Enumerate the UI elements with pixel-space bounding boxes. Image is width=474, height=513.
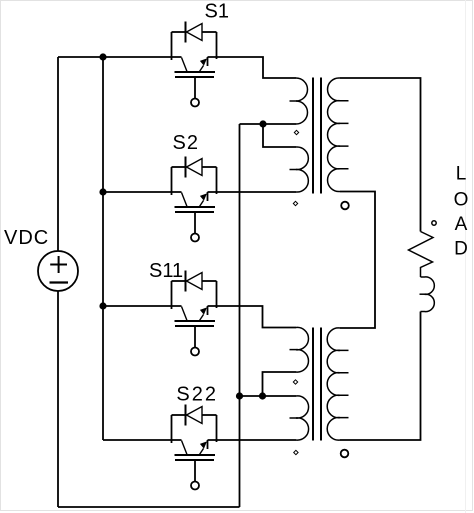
polarity mark T1 primary upper (294, 130, 298, 134)
transformer T2 primary upper winding (296, 327, 308, 372)
node: bus junction at S11 row (99, 302, 106, 309)
wire: S2 output to T1 primary bottom (208, 191, 297, 193)
diode of switch S2 (172, 157, 217, 196)
node: T2 tap junction at winding (259, 392, 266, 399)
wire: bottom return wire (58, 506, 240, 508)
svg-text:D: D (454, 239, 468, 260)
svg-text:A: A (455, 214, 468, 235)
transformer T2 secondary winding (327, 328, 340, 440)
svg-text:S2: S2 (173, 132, 199, 154)
load inductor (421, 277, 435, 312)
transistor of switch S22 (175, 440, 216, 490)
wire: VDC top lead up left side (57, 57, 59, 251)
polarity mark T1 primary lower (293, 201, 297, 205)
svg-text:VDC: VDC (4, 227, 49, 249)
wire: row S2 left (103, 191, 182, 193)
diode of switch S11 (172, 271, 217, 310)
transistor of switch S1 (175, 57, 216, 107)
wire: S1 output jog to T1 primary top (208, 57, 297, 78)
transformer T1 primary lower winding (296, 147, 308, 192)
wire: T2 center tap row (240, 395, 297, 397)
node: bus junction at S1 row (99, 53, 106, 60)
wire: T2 upper winding to tap jog (263, 372, 297, 396)
transformer T2 core (313, 328, 321, 441)
wire: positive bus vertical (102, 57, 104, 440)
diode of switch S22 (172, 405, 217, 444)
wire: S22 output to T2 primary bottom (208, 439, 297, 441)
polarity mark T2 primary upper (293, 380, 297, 384)
load resistor (409, 232, 434, 278)
wire: load bottom to T2 secondary bottom (340, 312, 421, 441)
svg-text:S11: S11 (149, 260, 183, 282)
wire: T1 secondary bottom to T2 secondary top (340, 192, 375, 329)
dc source VDC (38, 251, 78, 291)
svg-text:L: L (456, 164, 467, 185)
polarity mark T2 primary lower (294, 450, 298, 454)
transistor of switch S11 (175, 306, 216, 356)
transformer T2 primary lower winding (296, 396, 309, 440)
node: bus junction at S2 row (99, 188, 106, 195)
svg-text:S1: S1 (205, 1, 229, 23)
transistor of switch S2 (175, 192, 216, 242)
polarity mark T2 secondary (341, 450, 349, 458)
node: T2 tap junction on vertical (236, 392, 243, 399)
transformer T1 core (313, 78, 321, 194)
svg-text:O: O (454, 190, 469, 211)
wire: S11 output jog to T2 primary top (208, 306, 297, 328)
wire: T1 tap jog to lower winding (263, 124, 296, 147)
diode of switch S1 (172, 22, 217, 61)
wire: row S22 left (103, 439, 182, 441)
wire: row S11 left (103, 305, 182, 307)
node: T1 tap junction (259, 120, 266, 127)
node marker at load top (432, 221, 436, 225)
svg-text:S22: S22 (176, 384, 218, 406)
transformer T1 primary upper winding (296, 78, 308, 124)
wire: VDC bottom lead down left side (57, 291, 59, 507)
wire: row S1 left (58, 56, 182, 58)
wire: center-tap vertical (taps to VDC negative) (239, 124, 241, 507)
wire: T1 center tap (240, 123, 297, 125)
polarity mark T1 secondary (341, 202, 349, 210)
transformer T1 secondary winding (328, 78, 340, 192)
wire: T1 secondary top to load (340, 78, 421, 232)
